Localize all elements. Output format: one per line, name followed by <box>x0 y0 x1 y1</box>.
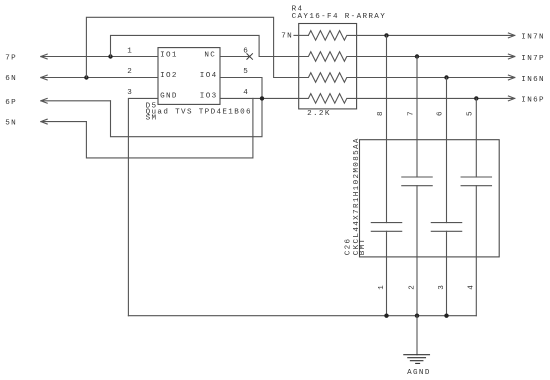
wire net 5N lead with arrow <box>41 119 87 124</box>
wire net 5N route to pin4 wire <box>86 98 253 157</box>
capacitor C26 element 3 plates <box>431 223 461 232</box>
svg-text:7N: 7N <box>281 33 293 41</box>
svg-text:1: 1 <box>127 47 133 55</box>
wire cap pin 6 column upper <box>446 78 448 223</box>
wire net 7P upper loop to resistor 2 <box>111 35 299 56</box>
capacitor C26 array body <box>360 140 500 257</box>
svg-text:NC: NC <box>204 51 216 59</box>
wire net 6N outer loop to resistor 3 <box>86 17 298 77</box>
svg-text:BMT: BMT <box>359 238 367 256</box>
svg-text:3: 3 <box>438 284 446 290</box>
wire cap pin 2 column lower <box>416 186 418 316</box>
resistor R4 element 1 <box>308 31 356 41</box>
wire net 6N left lead with arrow <box>41 75 158 80</box>
wire IC pin 5 to junction <box>220 78 262 99</box>
node pin4/pin5/6P junction <box>260 96 264 100</box>
svg-text:5: 5 <box>467 110 475 116</box>
ground AGND symbol <box>404 355 430 364</box>
IC D5 quad TVS TPD4E1B06 body <box>158 48 220 105</box>
svg-text:Quad TVS TPD4E1B06: Quad TVS TPD4E1B06 <box>146 108 252 116</box>
svg-text:5: 5 <box>243 68 249 76</box>
wire output IN6N with arrow <box>357 75 515 80</box>
node IN7P tap junction <box>415 54 419 58</box>
wire net 7N stub <box>294 34 308 36</box>
svg-text:6: 6 <box>243 47 249 55</box>
svg-text:2.2K: 2.2K <box>307 110 331 118</box>
svg-text:SM: SM <box>146 114 158 122</box>
svg-text:4: 4 <box>468 284 476 290</box>
capacitor C26 element 2 plates <box>402 177 432 186</box>
node rail pin3 junction <box>444 314 448 318</box>
wire bottom ground rail <box>128 315 476 317</box>
node 6N junction <box>84 75 88 79</box>
svg-text:IN6N: IN6N <box>521 76 545 84</box>
node IN6N tap junction <box>444 75 448 79</box>
capacitor C26 element 1 plates <box>371 223 401 232</box>
svg-text:6: 6 <box>437 110 445 116</box>
svg-text:8: 8 <box>377 110 385 116</box>
wire output IN6P with arrow <box>357 96 515 101</box>
resistor R4 element 2 <box>299 52 357 62</box>
node IN7N tap junction <box>384 33 388 37</box>
wire cap pin 8 column upper <box>386 35 388 222</box>
resistor R4 element 3 <box>299 73 357 83</box>
wire cap pin 5 column upper <box>475 98 477 177</box>
node IN6P tap junction <box>474 96 478 100</box>
svg-text:6N: 6N <box>5 75 17 83</box>
wire output IN7P with arrow <box>357 54 515 59</box>
wire output IN7N with arrow <box>357 33 515 38</box>
node rail pin1 junction <box>384 314 388 318</box>
wire cap pin 3 column lower <box>446 231 448 315</box>
svg-text:IN6P: IN6P <box>521 97 545 105</box>
svg-text:4: 4 <box>243 89 249 97</box>
svg-text:IO3: IO3 <box>200 92 218 100</box>
wire IC pin 3 GND down to bottom rail <box>128 98 158 315</box>
svg-text:IO4: IO4 <box>200 72 218 80</box>
svg-text:IO1: IO1 <box>160 51 178 59</box>
svg-text:AGND: AGND <box>407 369 431 377</box>
svg-text:IN7N: IN7N <box>521 34 545 42</box>
svg-text:7P: 7P <box>5 55 17 63</box>
capacitor C26 element 4 plates <box>461 177 491 186</box>
svg-text:5N: 5N <box>5 119 17 127</box>
resistor R4 array body <box>299 24 357 109</box>
svg-text:IO2: IO2 <box>160 72 178 80</box>
wire IC pin 4 to resistor 4 <box>220 97 299 99</box>
wire net 6P lead with arrow <box>41 98 111 103</box>
svg-text:C26: C26 <box>345 238 353 256</box>
svg-text:1: 1 <box>378 284 386 290</box>
svg-text:7: 7 <box>408 110 416 116</box>
wire cap pin 7 column upper <box>416 57 418 178</box>
svg-text:CAY16-F4 R-ARRAY: CAY16-F4 R-ARRAY <box>292 13 387 21</box>
svg-text:2: 2 <box>408 284 416 290</box>
svg-text:3: 3 <box>127 89 133 97</box>
svg-text:GND: GND <box>160 92 178 100</box>
wire AGND stem <box>416 316 418 355</box>
svg-text:6P: 6P <box>5 99 17 107</box>
resistor R4 element 4 <box>299 94 357 104</box>
node rail pin2 junction <box>415 314 419 318</box>
wire net 7P left lead with arrow <box>41 54 158 59</box>
wire IC pin 6 NC stub <box>220 56 250 58</box>
node pin 6 no-connect X <box>247 54 253 60</box>
svg-text:2: 2 <box>127 68 133 76</box>
svg-text:IN7P: IN7P <box>521 55 545 63</box>
wire cap pin 4 column lower <box>475 186 477 316</box>
wire cap pin 1 column lower <box>386 231 388 315</box>
node 7P junction <box>108 54 112 58</box>
wire net 6P route to pin4 junction <box>111 98 263 136</box>
